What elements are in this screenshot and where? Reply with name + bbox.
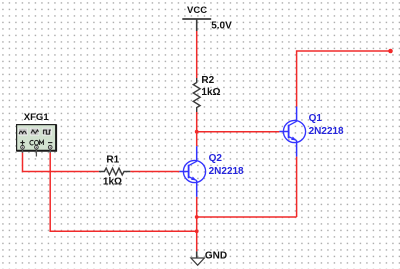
svg-text:2N2218: 2N2218	[309, 126, 344, 137]
svg-text:R1: R1	[106, 154, 119, 165]
svg-text:1kΩ: 1kΩ	[201, 87, 220, 98]
svg-text:XFG1: XFG1	[24, 112, 50, 123]
svg-text:Q2: Q2	[209, 153, 223, 164]
svg-text:2N2218: 2N2218	[209, 166, 244, 177]
svg-text:Q1: Q1	[309, 113, 323, 124]
svg-text:5.0V: 5.0V	[211, 20, 232, 31]
svg-text:1kΩ: 1kΩ	[103, 176, 122, 187]
svg-text:GND: GND	[205, 250, 227, 261]
svg-text:VCC: VCC	[187, 5, 207, 16]
svg-text:R2: R2	[201, 75, 214, 86]
